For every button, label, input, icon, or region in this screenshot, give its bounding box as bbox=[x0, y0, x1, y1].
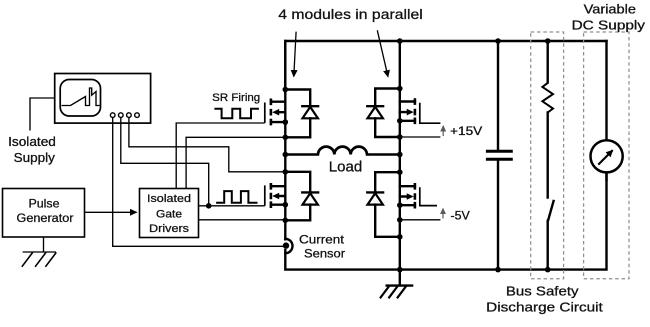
diode D1 (upper-left body diode) bbox=[283, 87, 319, 140]
inductor Load bbox=[283, 147, 403, 158]
svg-text:Variable: Variable bbox=[584, 3, 636, 17]
oscilloscope (isolated supply unit) bbox=[55, 74, 151, 124]
ground (bridge midpoint) bbox=[380, 270, 412, 299]
wire W3: scope ch3 to switching node bbox=[129, 117, 285, 171]
svg-text:SR Firing: SR Firing bbox=[212, 92, 260, 104]
transistor Q4 (lower-right MOSFET) bbox=[397, 183, 437, 209]
transistor Q2 (lower-left MOSFET) bbox=[265, 183, 288, 208]
wire: driver to lower gate (with pulse) bbox=[199, 205, 265, 207]
node: bottom bus junction at discharge branch bbox=[545, 267, 551, 273]
resistor R1 (discharge resistor) bbox=[542, 41, 553, 198]
svg-text:Bus Safety: Bus Safety bbox=[506, 284, 579, 299]
node: top bus junction at capacitor bbox=[495, 38, 501, 44]
node: top bus junction at discharge branch bbox=[545, 38, 551, 44]
svg-text:DC Supply: DC Supply bbox=[572, 19, 646, 33]
node: bottom bus junction at ground bbox=[397, 267, 403, 273]
svg-text:+15V: +15V bbox=[450, 126, 483, 138]
scope output terminals bbox=[110, 113, 115, 118]
current sensor loop bbox=[285, 239, 292, 253]
wire: bottom DC bus bbox=[285, 173, 606, 270]
dashed box: variable DC supply bbox=[584, 32, 629, 279]
pulse waveform glyph (SR firing, inverted) bbox=[214, 109, 259, 118]
node: -5V reference tap bbox=[397, 217, 403, 223]
diode D2 (lower-left body diode) bbox=[283, 169, 319, 223]
wire: right branch top (to variable DC supply) bbox=[605, 41, 607, 140]
gate drive arrow -5V bbox=[442, 209, 444, 219]
svg-text:Load: Load bbox=[329, 158, 363, 175]
svg-text:Sensor: Sensor bbox=[304, 249, 345, 261]
transistor Q1 (upper-left MOSFET) bbox=[265, 99, 288, 126]
node: top bus junction at right leg bbox=[397, 38, 403, 44]
node: current sensor tap bbox=[283, 242, 289, 248]
svg-text:Gate: Gate bbox=[156, 209, 182, 221]
wire W4: driver to SR gate bbox=[176, 123, 265, 189]
wire: right bridge leg bbox=[399, 41, 401, 270]
svg-text:Isolated: Isolated bbox=[147, 193, 191, 205]
isolated gate drivers box bbox=[140, 189, 199, 238]
svg-text:4 modules in parallel: 4 modules in parallel bbox=[278, 6, 422, 22]
wire W1: scope ch1 to current sensor bbox=[113, 117, 284, 246]
capacitor C1 bbox=[486, 41, 513, 270]
wire: -5V gate reference bbox=[400, 219, 441, 221]
svg-text:Isolated: Isolated bbox=[8, 135, 56, 149]
wire: driver to lower source node bbox=[199, 219, 286, 221]
pulse generator box bbox=[3, 189, 85, 238]
wire: left bridge leg bbox=[284, 41, 286, 239]
ground (pulse generator) bbox=[22, 252, 57, 267]
svg-text:-5V: -5V bbox=[451, 211, 471, 223]
annotation arrow to left module bbox=[294, 32, 296, 77]
annotation arrow to right module bbox=[377, 30, 388, 76]
node: bottom bus junction at capacitor bbox=[495, 267, 501, 273]
source V1 (variable DC supply) bbox=[591, 140, 623, 180]
wire W5: driver to upper source node bbox=[186, 137, 285, 188]
svg-text:Pulse: Pulse bbox=[29, 196, 60, 210]
diode D4 (lower-right body diode) bbox=[367, 169, 402, 239]
svg-text:Discharge Circuit: Discharge Circuit bbox=[486, 300, 603, 315]
dashed box: bus safety discharge circuit bbox=[531, 32, 564, 279]
pulse waveform glyph (lower gate) bbox=[216, 191, 257, 203]
transistor Q3 (upper-right MOSFET) bbox=[397, 98, 440, 124]
wire: pulse generator to ground bbox=[43, 237, 45, 252]
switch SW1 (discharge switch) bbox=[548, 200, 554, 270]
gate drive arrow +15V bbox=[442, 126, 444, 136]
wire: pulse generator to drivers (arrow) bbox=[85, 211, 137, 213]
svg-text:Drivers: Drivers bbox=[149, 223, 190, 235]
wire: +15V gate reference bbox=[400, 136, 441, 138]
node: W2 tap on gate wire bbox=[206, 203, 212, 209]
wire: scope to isolated supply label bbox=[30, 98, 55, 131]
wire: top DC bus bbox=[285, 41, 606, 92]
svg-text:Generator: Generator bbox=[17, 211, 74, 225]
wire W2: scope ch2 to lower gate signal bbox=[121, 117, 209, 205]
svg-text:Current: Current bbox=[299, 234, 345, 246]
diode D3 (upper-right body diode) bbox=[367, 86, 402, 140]
svg-text:Supply: Supply bbox=[14, 151, 56, 165]
